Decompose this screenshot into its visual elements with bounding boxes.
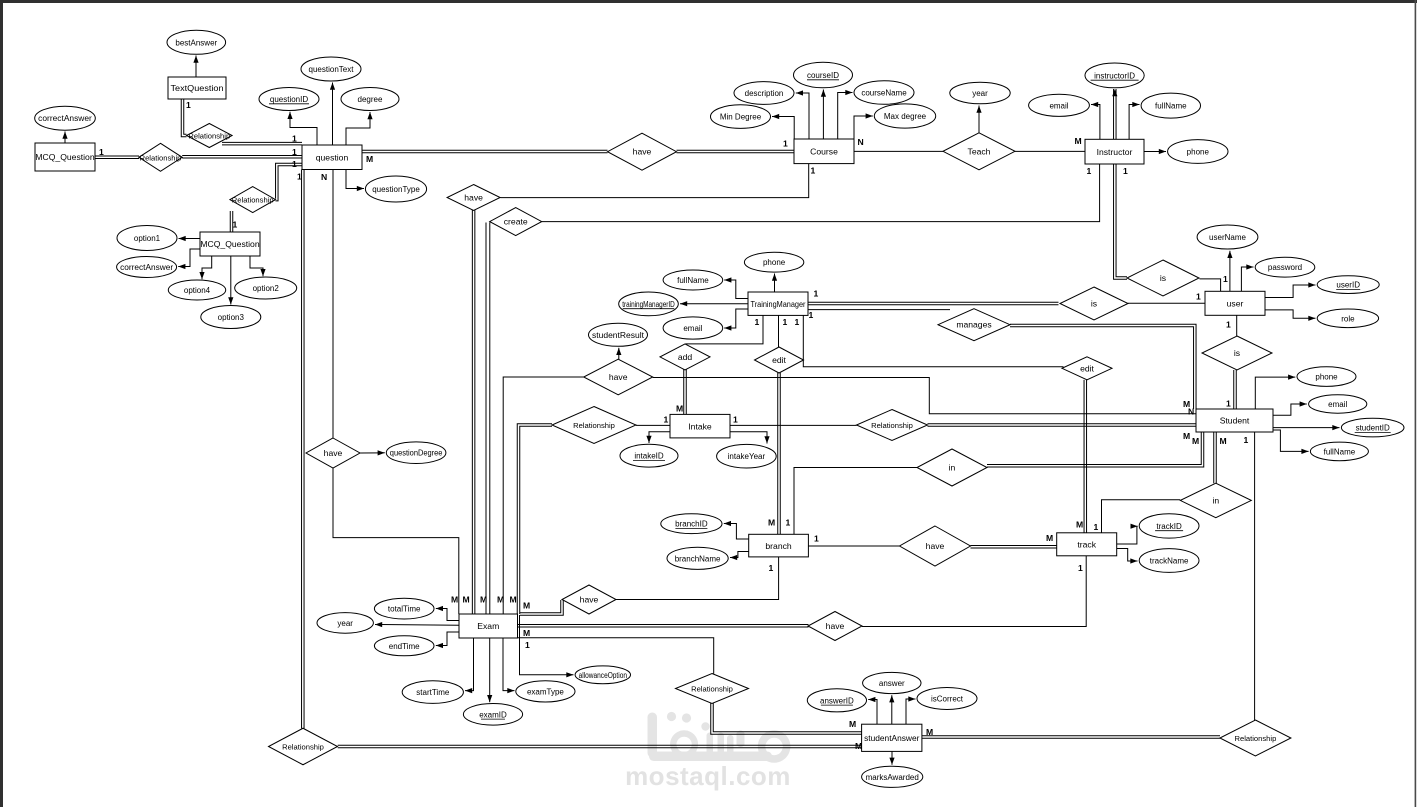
- wire studentAnswer-answer: [889, 695, 894, 724]
- svg-text:Relationship: Relationship: [232, 196, 274, 205]
- svg-text:correctAnswer: correctAnswer: [38, 114, 92, 123]
- svg-text:year: year: [337, 619, 353, 628]
- wire user-userName: [1227, 251, 1232, 291]
- wire studentAnswer-answerID: [868, 697, 877, 724]
- attribute trainingManagerID: [619, 292, 679, 316]
- svg-text:Intake: Intake: [688, 421, 712, 431]
- attribute year: [950, 82, 1010, 104]
- svg-text:year: year: [972, 89, 988, 98]
- wire Relationship4b-Student: [928, 424, 1197, 427]
- svg-text:user: user: [1227, 299, 1244, 309]
- svg-text:courseName: courseName: [861, 89, 907, 98]
- svg-text:create: create: [504, 217, 528, 227]
- svg-text:email: email: [1328, 400, 1347, 409]
- wire Exam-year: [375, 622, 459, 627]
- wire Student-in3: [987, 432, 1204, 467]
- wire have5-Exam: [520, 600, 563, 615]
- attribute intakeID: [620, 444, 678, 467]
- relationship have: [306, 438, 360, 468]
- wire manages-Student: [1010, 324, 1196, 409]
- svg-text:track: track: [1077, 540, 1096, 550]
- relationship Relationship: [1220, 720, 1291, 756]
- relationship is: [1060, 287, 1128, 320]
- entity Instructor: [1085, 139, 1144, 164]
- wire question-have: [362, 150, 608, 153]
- wire TrainingManager-fullName: [724, 277, 748, 298]
- wire Student-fullName: [1273, 430, 1309, 454]
- svg-text:M: M: [497, 595, 504, 605]
- wire have6-Exam: [333, 468, 459, 614]
- svg-text:1: 1: [292, 147, 297, 157]
- svg-text:M: M: [480, 595, 487, 605]
- relationship manages: [938, 309, 1010, 341]
- attribute studentResult: [589, 323, 648, 346]
- svg-text:1: 1: [292, 159, 297, 169]
- relationship add: [660, 344, 710, 370]
- relationship in: [917, 449, 987, 486]
- svg-text:phone: phone: [1315, 373, 1338, 382]
- svg-text:intakeYear: intakeYear: [728, 452, 766, 461]
- wire have5-branch: [616, 557, 779, 600]
- wire Course-courseID: [821, 90, 826, 140]
- svg-text:trainingManagerID: trainingManagerID: [622, 300, 675, 309]
- page left border bar: [0, 0, 3, 807]
- entity TrainingManager: [748, 292, 808, 315]
- entity track: [1057, 533, 1117, 556]
- wire Course-courseName: [838, 90, 853, 139]
- relationship Relationship: [230, 187, 276, 213]
- entity MCQ_Question #2: [200, 232, 260, 256]
- wire have2-Exam: [472, 209, 475, 614]
- attribute branchID: [661, 514, 722, 534]
- svg-text:manages: manages: [956, 320, 991, 330]
- wire create-Exam strand1: [485, 223, 487, 615]
- svg-text:1: 1: [755, 317, 760, 327]
- svg-text:1: 1: [1223, 274, 1228, 284]
- wire have4-track: [971, 546, 1057, 549]
- svg-text:fullName: fullName: [1324, 447, 1356, 456]
- svg-text:allowanceOption: allowanceOption: [579, 671, 627, 680]
- svg-text:TextQuestion: TextQuestion: [171, 83, 224, 93]
- attribute email: [1029, 94, 1090, 116]
- svg-text:questionText: questionText: [309, 65, 355, 74]
- svg-text:1: 1: [1226, 399, 1231, 409]
- svg-text:Relationship: Relationship: [140, 153, 182, 162]
- svg-text:TrainingManager: TrainingManager: [751, 299, 806, 309]
- entity Intake: [670, 414, 730, 438]
- svg-text:isCorrect: isCorrect: [931, 695, 964, 704]
- wire TrainingManager-manages: [808, 309, 950, 311]
- svg-text:Min Degree: Min Degree: [720, 113, 762, 122]
- svg-text:1: 1: [1226, 320, 1231, 330]
- svg-text:email: email: [683, 324, 702, 333]
- attribute questionID: [259, 88, 319, 111]
- svg-text:1: 1: [733, 415, 738, 425]
- relationship have: [584, 359, 653, 395]
- wire is3-Student: [1234, 370, 1237, 409]
- svg-text:1: 1: [769, 563, 774, 573]
- svg-text:mostaql.com: mostaql.com: [625, 761, 791, 791]
- relationship have: [447, 185, 500, 211]
- wire create-Exam strand2: [489, 222, 491, 614]
- wire Course-have2: [500, 164, 808, 198]
- relationship Relationship: [676, 674, 749, 704]
- wire user-password: [1241, 264, 1253, 291]
- svg-text:1: 1: [525, 640, 530, 650]
- svg-text:1: 1: [786, 518, 791, 528]
- svg-text:Relationship: Relationship: [691, 685, 733, 694]
- svg-text:role: role: [1341, 314, 1355, 323]
- relationship create: [490, 208, 542, 236]
- attribute role: [1317, 309, 1378, 328]
- svg-text:answerID: answerID: [820, 696, 854, 705]
- svg-text:branchID: branchID: [675, 520, 708, 529]
- svg-text:password: password: [1268, 263, 1302, 272]
- attribute endTime: [374, 636, 434, 656]
- svg-text:studentResult: studentResult: [592, 331, 645, 340]
- svg-text:Course: Course: [810, 147, 838, 157]
- wire Instructor-instructorID: [1112, 89, 1117, 139]
- relationship Relationship: [139, 143, 182, 171]
- wire question-Relationship (lower): [276, 163, 303, 201]
- entity MCQ_Question: [35, 143, 95, 171]
- svg-text:N: N: [1188, 407, 1194, 417]
- svg-text:have: have: [633, 147, 652, 157]
- wire MCQ_Question2-correctAnswer: [178, 249, 200, 269]
- wire is1-user: [1200, 279, 1221, 291]
- svg-text:Relationship: Relationship: [573, 421, 615, 430]
- svg-text:studentID: studentID: [1356, 424, 1390, 433]
- svg-text:have: have: [609, 372, 628, 382]
- wire have3-Student: [653, 378, 1196, 414]
- relationship Relationship: [187, 124, 233, 148]
- svg-text:marksAwarded: marksAwarded: [866, 773, 919, 782]
- svg-text:M: M: [768, 518, 775, 528]
- svg-text:examID: examID: [479, 710, 507, 719]
- svg-text:M: M: [510, 595, 517, 605]
- relationship in: [1180, 483, 1251, 518]
- wire Student-email: [1273, 401, 1307, 415]
- wire branch-branchID: [724, 521, 749, 539]
- svg-text:1: 1: [1078, 563, 1083, 573]
- wire question-degree: [346, 112, 373, 145]
- attribute answerID: [807, 689, 866, 712]
- wire have3-studentResult: [616, 348, 621, 361]
- attribute option3: [201, 306, 261, 329]
- svg-text:is: is: [1160, 273, 1166, 283]
- wire MCQ_Question2-option4: [199, 256, 211, 279]
- relationship have: [562, 585, 616, 614]
- svg-text:1: 1: [783, 317, 788, 327]
- svg-text:1: 1: [297, 172, 302, 182]
- svg-text:fullName: fullName: [677, 276, 709, 285]
- wire Instructor-fullName: [1129, 102, 1139, 139]
- svg-text:1: 1: [1087, 166, 1092, 176]
- relationship edit: [755, 347, 804, 373]
- wire in4-track: [1102, 500, 1181, 533]
- wire Exam-Relationship5: [516, 638, 714, 674]
- wire TrainingManager-edit2: [803, 315, 1063, 366]
- wire Exam-have7: [518, 625, 809, 628]
- wire branch-branchName: [730, 552, 749, 561]
- wire Teach-Instructor: [1015, 150, 1085, 152]
- attribute questionType: [365, 176, 426, 202]
- wire Student-in4: [1214, 432, 1217, 483]
- wire Exam-startTime: [465, 638, 474, 693]
- wire edit1-branch: [778, 373, 781, 535]
- svg-text:M: M: [451, 595, 458, 605]
- svg-text:questionType: questionType: [372, 185, 420, 194]
- attribute examID: [463, 704, 522, 726]
- attribute email: [1309, 395, 1367, 413]
- svg-text:have: have: [324, 448, 343, 458]
- wire TrainingManager-trainingManagerID: [680, 301, 748, 306]
- attribute questionDegree: [386, 442, 446, 464]
- entity Course: [794, 139, 854, 164]
- wire Relationship5-studentAnswer: [711, 703, 862, 735]
- attribute phone: [744, 252, 803, 272]
- relationship have: [608, 133, 677, 170]
- attribute fullName: [1141, 93, 1200, 118]
- relationship Relationship: [857, 410, 928, 441]
- attribute isCorrect: [917, 688, 977, 710]
- wire Student-phone: [1255, 375, 1295, 410]
- svg-text:option1: option1: [134, 234, 161, 243]
- svg-text:is: is: [1091, 299, 1097, 309]
- wire Exam-endTime: [436, 632, 459, 648]
- svg-text:courseID: courseID: [807, 71, 839, 80]
- relationship Teach: [943, 133, 1015, 170]
- wire track-trackID: [1117, 524, 1138, 544]
- wire Intake-intakeYear: [730, 432, 769, 444]
- relationship Relationship: [552, 407, 636, 444]
- attribute option1: [117, 226, 177, 251]
- attribute phone: [1297, 367, 1356, 387]
- wire Exam-examID: [487, 638, 492, 702]
- svg-text:userID: userID: [1336, 281, 1360, 290]
- relationship have: [900, 526, 971, 566]
- svg-text:fullName: fullName: [1155, 102, 1187, 111]
- attribute password: [1255, 257, 1315, 277]
- svg-text:1: 1: [664, 415, 669, 425]
- svg-text:studentAnswer: studentAnswer: [864, 733, 919, 743]
- wire user-role: [1265, 310, 1316, 321]
- svg-text:branchName: branchName: [675, 554, 721, 563]
- wire Student-studentID: [1273, 425, 1340, 430]
- wire TrainingManager-add: [686, 315, 764, 344]
- attribute marksAwarded: [862, 766, 923, 787]
- svg-text:M: M: [1046, 533, 1053, 543]
- attribute correctAnswer: [35, 106, 96, 130]
- attribute examType: [516, 681, 575, 702]
- wire Relationship4-Intake: [636, 424, 670, 426]
- attribute Min Degree: [711, 105, 771, 129]
- svg-text:1: 1: [1123, 166, 1128, 176]
- attribute allowanceOption: [575, 666, 630, 684]
- wire add-Intake: [684, 369, 687, 415]
- wire Course-Maxdegree: [854, 113, 873, 139]
- wire question-questionID: [287, 112, 317, 145]
- svg-text:description: description: [745, 89, 784, 98]
- attribute phone: [1168, 140, 1228, 164]
- svg-text:trackName: trackName: [1150, 557, 1189, 566]
- svg-text:N: N: [321, 172, 327, 182]
- svg-text:M: M: [1220, 436, 1227, 446]
- svg-text:1: 1: [783, 139, 788, 149]
- wire TextQuestion-bestAnswer: [193, 56, 198, 78]
- svg-text:option2: option2: [253, 284, 280, 293]
- svg-text:M: M: [1192, 436, 1199, 446]
- svg-text:totalTime: totalTime: [388, 605, 421, 614]
- wire have-Course: [677, 150, 795, 153]
- attribute degree: [341, 88, 399, 111]
- wire question-have6: [332, 170, 334, 439]
- wire Exam-totalTime: [436, 606, 459, 621]
- svg-text:1: 1: [795, 317, 800, 327]
- svg-text:M: M: [849, 719, 856, 729]
- svg-text:M: M: [676, 404, 683, 414]
- attribute userID: [1317, 276, 1379, 294]
- svg-text:1: 1: [292, 134, 297, 144]
- svg-text:1: 1: [186, 100, 191, 110]
- watermark mostaql logo: [648, 712, 787, 761]
- svg-text:M: M: [1183, 431, 1190, 441]
- svg-text:1: 1: [811, 166, 816, 176]
- svg-text:Instructor: Instructor: [1097, 147, 1133, 157]
- attribute fullName: [663, 270, 723, 290]
- svg-text:is: is: [1234, 348, 1240, 358]
- wire MCQ_Question-correctAnswer: [62, 132, 67, 144]
- wire have3-Exam: [503, 377, 585, 614]
- attribute fullName: [1310, 442, 1368, 461]
- wire Relationship6-studentAnswer: [338, 745, 862, 748]
- wire Relationship-question (top): [222, 142, 302, 145]
- svg-text:phone: phone: [763, 258, 786, 267]
- svg-text:questionDegree: questionDegree: [390, 449, 443, 458]
- wire question-Relationship6: [302, 170, 305, 729]
- svg-text:edit: edit: [772, 355, 786, 365]
- wire track-trackName: [1117, 549, 1138, 564]
- wire question-questionText: [330, 83, 335, 146]
- svg-text:correctAnswer: correctAnswer: [120, 263, 173, 272]
- svg-text:userName: userName: [1209, 233, 1246, 242]
- attribute Max degree: [874, 104, 935, 128]
- attribute totalTime: [374, 598, 434, 619]
- attribute option4: [168, 280, 225, 300]
- wire user-userID: [1265, 282, 1316, 297]
- wire Student-Relationship7: [1254, 432, 1256, 721]
- entity TextQuestion: [168, 77, 226, 99]
- svg-text:1: 1: [814, 289, 819, 299]
- svg-text:Relationship: Relationship: [1235, 734, 1277, 743]
- attribute studentID: [1341, 418, 1404, 437]
- svg-text:M: M: [523, 628, 530, 638]
- attribute email: [663, 317, 723, 339]
- svg-text:add: add: [678, 352, 693, 362]
- svg-text:Teach: Teach: [968, 146, 991, 156]
- svg-text:email: email: [1049, 101, 1068, 110]
- attribute correctAnswer: [117, 257, 177, 278]
- svg-text:1: 1: [1196, 292, 1201, 302]
- entity Student: [1196, 409, 1273, 432]
- wire MCQ_Question2-option1: [179, 236, 201, 241]
- svg-text:instructorID: instructorID: [1094, 71, 1135, 80]
- svg-text:MCQ_Question: MCQ_Question: [35, 152, 94, 162]
- wire edit2-track: [1084, 380, 1087, 533]
- wire user-is3: [1236, 315, 1238, 336]
- svg-text:M: M: [366, 154, 373, 164]
- attribute branchName: [667, 547, 728, 569]
- wire studentAnswer-isCorrect: [906, 696, 916, 724]
- page right border line: [1415, 0, 1417, 807]
- svg-text:Relationship: Relationship: [188, 132, 230, 141]
- wire TrainingManager-edit1: [778, 315, 780, 347]
- wire Course-MinDegree: [772, 114, 794, 139]
- wire MCQ_Question2-option3: [228, 256, 233, 305]
- wire Course-description: [796, 90, 809, 139]
- wire in3-branch: [794, 468, 917, 535]
- svg-text:1: 1: [1244, 435, 1249, 445]
- svg-text:Relationship: Relationship: [871, 421, 913, 430]
- wire track-have7: [862, 556, 1086, 627]
- relationship edit: [1062, 357, 1112, 380]
- wire branch-have4: [808, 545, 899, 547]
- svg-text:question: question: [316, 152, 349, 162]
- attribute courseName: [854, 81, 914, 105]
- svg-text:have: have: [926, 541, 945, 551]
- svg-text:M: M: [1076, 520, 1083, 530]
- svg-text:have: have: [826, 621, 845, 631]
- attribute courseID: [794, 62, 853, 88]
- wire TrainingManager-is2: [808, 302, 1059, 305]
- svg-text:Relationship: Relationship: [282, 743, 324, 752]
- attribute trackID: [1139, 514, 1199, 538]
- svg-text:M: M: [523, 601, 530, 611]
- wire Teach-year: [976, 106, 981, 133]
- wire Relationship-question (mid): [182, 156, 302, 159]
- entity user: [1205, 291, 1265, 315]
- wire TrainingManager-email: [724, 309, 748, 331]
- wire create-Instructor: [542, 164, 1100, 222]
- svg-text:N: N: [858, 137, 864, 147]
- attribute instructorID: [1085, 63, 1144, 88]
- wire MCQ_Question-Relationship: [95, 156, 139, 159]
- svg-text:questionID: questionID: [270, 95, 308, 104]
- svg-text:phone: phone: [1187, 148, 1210, 157]
- attribute questionText: [301, 57, 361, 81]
- wire Instructor-phone: [1144, 149, 1166, 154]
- attribute intakeYear: [717, 444, 777, 468]
- svg-text:1: 1: [814, 534, 819, 544]
- attribute option2: [235, 277, 297, 299]
- svg-text:M: M: [926, 727, 933, 737]
- wire TrainingManager-phone: [772, 274, 777, 293]
- svg-text:Max degree: Max degree: [884, 112, 927, 121]
- wire Exam-examType: [503, 638, 515, 693]
- entity studentAnswer: [862, 724, 922, 751]
- svg-text:M: M: [463, 595, 470, 605]
- svg-text:1: 1: [809, 310, 814, 320]
- wire Intake-intakeID: [646, 432, 670, 443]
- attribute startTime: [402, 681, 463, 704]
- entity branch: [749, 534, 809, 557]
- attribute description: [734, 82, 794, 105]
- svg-text:in: in: [949, 463, 956, 473]
- svg-text:answer: answer: [879, 679, 905, 688]
- entity question: [302, 145, 362, 170]
- svg-text:option3: option3: [218, 313, 245, 322]
- wire Exam-allowanceOption: [520, 615, 574, 677]
